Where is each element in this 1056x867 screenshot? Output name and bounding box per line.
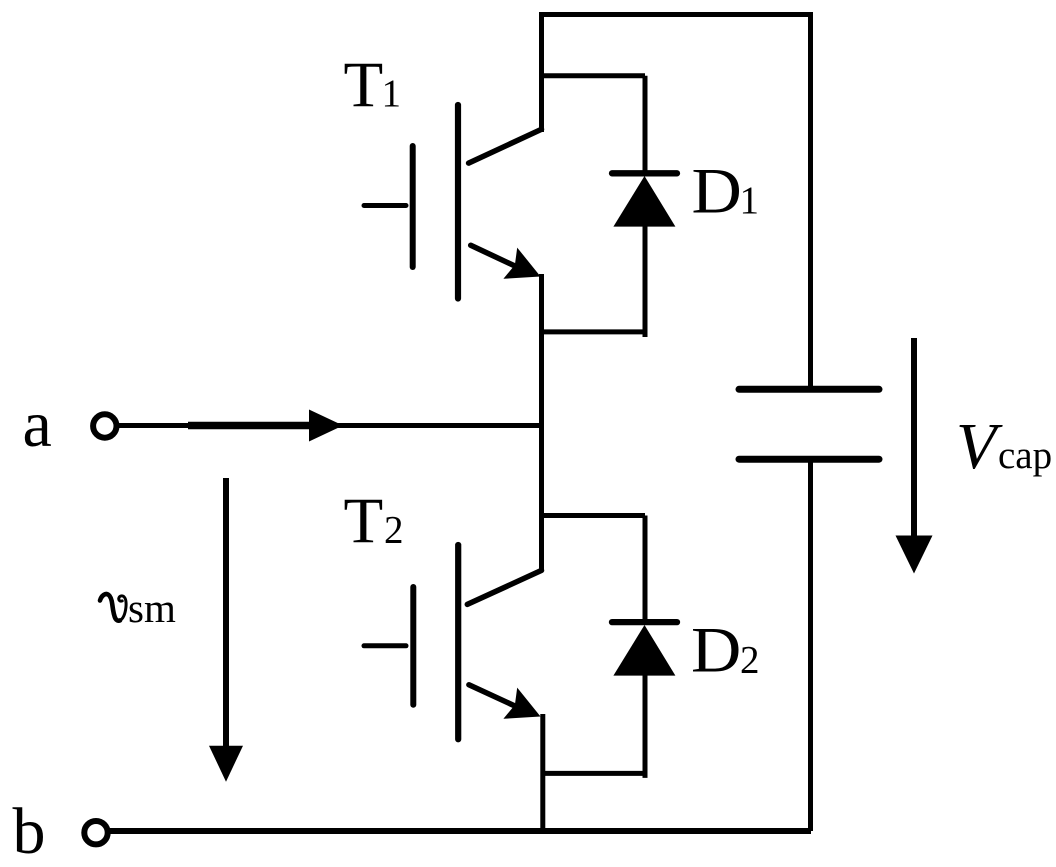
wire: top rail from T1 collector to capacitor branch xyxy=(542,15,811,133)
D2 bottom branch wire xyxy=(543,771,645,776)
label vsm xyxy=(100,594,120,621)
svg-text:1: 1 xyxy=(382,72,402,115)
node a terminal circle xyxy=(93,414,116,437)
D2 triangle (anode) xyxy=(613,625,675,676)
wire: node a to IGBT midpoint xyxy=(118,423,542,428)
D1 cathode bar xyxy=(612,170,677,176)
T2 collector diagonal xyxy=(467,570,541,604)
transistor T1 (IGBT) xyxy=(364,105,542,299)
svg-text:cap: cap xyxy=(998,434,1052,477)
wire: T2 emitter vertical to bottom rail xyxy=(540,714,545,831)
D2 upper vertical xyxy=(643,516,648,622)
node b terminal circle xyxy=(84,821,107,844)
arrow: current direction on wire a xyxy=(188,410,343,442)
T1 collector diagonal xyxy=(469,129,542,163)
svg-text:D: D xyxy=(692,155,742,227)
svg-text:2: 2 xyxy=(740,639,760,682)
T2 emitter diagonal with arrowhead xyxy=(469,685,516,707)
D2 cathode bar xyxy=(612,619,677,625)
T2 main bar xyxy=(455,545,461,739)
transistor T2 (IGBT) xyxy=(364,545,542,739)
D1 top branch wire xyxy=(539,73,645,78)
svg-text:D: D xyxy=(691,614,741,686)
svg-text:sm: sm xyxy=(128,585,176,631)
diode D1 xyxy=(539,76,677,337)
D2 lower vertical xyxy=(643,675,648,778)
capacitor top plate xyxy=(739,386,879,393)
T1 main bar xyxy=(455,105,461,299)
svg-text:b: b xyxy=(13,795,46,867)
T2 gate lead xyxy=(364,643,406,648)
wire: T1 collector vertical stub xyxy=(539,129,544,132)
T1 emitter diagonal with arrowhead xyxy=(471,245,516,266)
svg-text:1: 1 xyxy=(740,179,760,222)
diode D2 xyxy=(539,516,677,778)
D2 top branch wire xyxy=(539,513,645,518)
svg-text:a: a xyxy=(23,388,52,461)
T2 gate bar xyxy=(410,587,416,705)
arrow: vsm voltage arrow xyxy=(209,478,243,782)
capacitor bottom plate xyxy=(739,456,879,463)
wire: central vertical from T1 emitter through node a to T2 collector xyxy=(539,274,544,570)
wire: right vertical from capacitor bottom plate to bottom rail xyxy=(808,462,813,831)
svg-text:V: V xyxy=(956,410,1003,483)
svg-text:T: T xyxy=(344,485,384,557)
wire: right vertical from top rail down to capacitor top plate xyxy=(808,12,813,386)
arrow: Vcap voltage arrow xyxy=(896,338,933,574)
D1 bottom branch wire xyxy=(542,329,646,334)
D1 triangle (anode) xyxy=(613,176,675,227)
D1 lower vertical xyxy=(643,226,648,337)
D1 upper vertical xyxy=(643,76,648,172)
wire: bottom rail from node b to capacitor branch xyxy=(109,828,811,834)
svg-text:T: T xyxy=(344,49,384,121)
svg-text:2: 2 xyxy=(384,509,404,552)
T1 gate bar xyxy=(410,146,416,267)
T1 gate lead xyxy=(364,203,406,208)
